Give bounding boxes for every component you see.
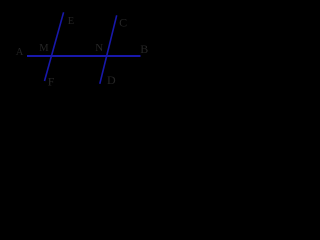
svg-text:A: A [16, 47, 24, 58]
svg-text:M: M [39, 43, 49, 54]
svg-text:C: C [119, 15, 127, 29]
line CD (right parallel line) [100, 15, 117, 84]
svg-text:N: N [95, 42, 103, 54]
svg-text:F: F [48, 75, 55, 89]
line AB (horizontal transversal) [27, 55, 141, 57]
svg-text:E: E [68, 16, 74, 27]
svg-text:B: B [140, 42, 148, 56]
svg-text:D: D [107, 73, 116, 87]
background [0, 0, 166, 92]
line EF (left parallel line) [45, 12, 64, 81]
